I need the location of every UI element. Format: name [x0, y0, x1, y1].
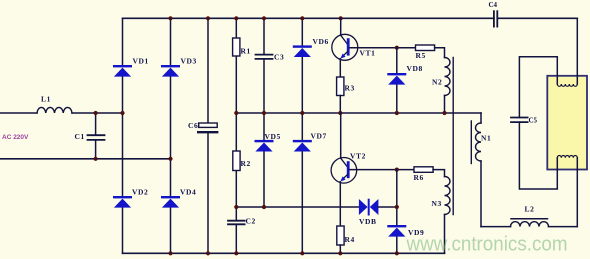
- node top rail VT1: [339, 16, 343, 20]
- svg-text:VD8: VD8: [407, 64, 423, 73]
- node bottom rail C2: [234, 251, 238, 255]
- svg-text:VD2: VD2: [132, 188, 148, 197]
- diode VD8: [387, 73, 406, 85]
- wire L1 to bridge: [72, 112, 123, 114]
- diac VDB: [359, 199, 379, 216]
- wire VT1 collector: [340, 18, 342, 35]
- svg-text:VT2: VT2: [350, 152, 366, 161]
- wire VD8 column: [396, 48, 398, 113]
- node trigger VD5: [262, 205, 266, 209]
- resistor R6: [414, 167, 433, 173]
- diode VD7: [293, 140, 312, 152]
- wire VD6 VD7 column: [301, 18, 303, 253]
- resistor R2: [233, 151, 240, 171]
- svg-text:R5: R5: [416, 51, 426, 60]
- node mid rail VD8: [395, 111, 399, 115]
- node top rail VD6: [300, 16, 304, 20]
- top rail: [123, 17, 494, 19]
- wire C5 bottom to lamp bottom left: [519, 122, 557, 189]
- capacitor C6: [199, 123, 218, 127]
- transformer core left: [452, 58, 454, 215]
- inductor L1: [37, 107, 72, 113]
- wire VDB to node: [378, 206, 396, 208]
- capacitor C1: [88, 113, 105, 159]
- svg-text:R2: R2: [241, 159, 251, 168]
- svg-text:VD3: VD3: [181, 57, 197, 66]
- wire C6 column: [207, 18, 209, 253]
- winding N3: [445, 177, 451, 215]
- svg-text:C5: C5: [529, 117, 538, 125]
- svg-text:VD4: VD4: [180, 188, 196, 197]
- capacitor C3: [256, 55, 273, 59]
- wire R4 to bottom rail: [339, 245, 341, 253]
- node bridge right: [168, 157, 172, 161]
- node bottom rail VD4: [168, 251, 172, 255]
- node trigger VD9: [395, 205, 399, 209]
- svg-text:VDB: VDB: [359, 217, 377, 226]
- svg-text:C1: C1: [75, 132, 85, 141]
- wire VD1 column: [122, 18, 124, 253]
- wire R3 to mid rail: [339, 96, 341, 114]
- svg-text:VD1: VD1: [133, 57, 149, 66]
- svg-text:C6: C6: [188, 121, 198, 130]
- wire lamp top left to C5: [519, 57, 557, 118]
- resistor R5: [416, 45, 435, 51]
- bottom rail: [123, 252, 445, 254]
- winding N2: [445, 58, 451, 96]
- capacitor C2: [228, 221, 245, 225]
- node mid rail N2: [442, 111, 446, 115]
- diode VD9: [387, 225, 406, 237]
- svg-text:R3: R3: [345, 84, 355, 93]
- wire VD3 column: [170, 18, 172, 253]
- node C1 bottom: [94, 157, 98, 161]
- node base VDB VD9: [395, 168, 399, 172]
- wire N3 to bottom rail: [444, 215, 446, 254]
- transistor VT1: [332, 34, 358, 60]
- lamp tube: [547, 76, 587, 170]
- wire R6 to N3: [433, 170, 444, 177]
- svg-text:C3: C3: [274, 53, 284, 62]
- wire VT1 base: [350, 47, 416, 49]
- transistor VT2: [331, 158, 357, 184]
- wire VT2 emitter to R4: [339, 182, 341, 226]
- wire lamp top right to C4 rail: [576, 18, 578, 84]
- node bottom rail R4: [338, 251, 342, 255]
- node C1 top: [94, 111, 98, 115]
- diode VD6: [293, 45, 312, 57]
- svg-text:R1: R1: [241, 47, 251, 56]
- node top rail C6: [206, 16, 210, 20]
- node top rail R1: [234, 16, 238, 20]
- wire AC line top: [0, 112, 37, 114]
- wire VD9 column: [396, 170, 398, 254]
- diode VD3: [161, 65, 180, 77]
- node base VD8: [395, 46, 399, 50]
- lamp filament top: [557, 84, 577, 86]
- svg-text:C2: C2: [246, 217, 256, 226]
- svg-text:VD7: VD7: [311, 132, 327, 141]
- inductor L2: [511, 219, 549, 227]
- node bridge left: [120, 111, 124, 115]
- capacitor C4: [494, 11, 497, 26]
- node bottom rail VD7: [300, 251, 304, 255]
- wire lamp bottom right to L2: [576, 158, 578, 227]
- resistor R3: [337, 77, 344, 96]
- diode VD1: [113, 65, 132, 77]
- wire N2 to mid rail: [444, 96, 446, 114]
- node bottom rail VD9: [395, 251, 399, 255]
- node mid rail R1R2: [234, 111, 238, 115]
- svg-text:VT1: VT1: [360, 49, 376, 58]
- winding N1: [476, 113, 481, 227]
- middle rail (half-bridge node): [236, 112, 481, 114]
- svg-text:AC 220V: AC 220V: [2, 134, 29, 141]
- resistor R4: [337, 226, 344, 245]
- svg-text:VD5: VD5: [265, 132, 281, 141]
- transformer core right: [470, 121, 472, 164]
- wire C3 VD5 column: [263, 18, 265, 207]
- svg-text:N2: N2: [432, 78, 442, 87]
- wire R5 to N2: [435, 48, 445, 58]
- node mid rail VD7: [300, 111, 304, 115]
- capacitor C5: [511, 118, 528, 123]
- node top rail C3: [262, 16, 266, 20]
- node mid rail VD5: [262, 111, 266, 115]
- svg-text:L2: L2: [525, 205, 535, 214]
- node mid rail R3: [338, 111, 342, 115]
- lamp filament bottom: [557, 156, 577, 158]
- svg-text:VD6: VD6: [313, 37, 329, 46]
- resistor R1: [233, 38, 240, 56]
- trigger wire C2 to VDB: [236, 206, 359, 208]
- wire L2 to lamp: [549, 226, 578, 228]
- node bottom rail C6: [206, 251, 210, 255]
- svg-text:N3: N3: [432, 199, 442, 208]
- diode VD2: [113, 196, 132, 208]
- wire VT1 emitter to R3: [339, 59, 341, 77]
- node top rail VD3: [168, 16, 172, 20]
- svg-text:www.cntronics.com: www.cntronics.com: [406, 233, 568, 256]
- top rail right of C4: [497, 17, 577, 19]
- svg-text:R4: R4: [345, 235, 355, 244]
- svg-text:C4: C4: [489, 1, 498, 9]
- svg-text:L1: L1: [41, 95, 51, 104]
- wire N1 to L2: [481, 226, 511, 228]
- node R2 C2 trigger: [234, 205, 238, 209]
- svg-text:R6: R6: [414, 173, 424, 182]
- svg-text:N1: N1: [481, 134, 491, 143]
- wire VT2 collector: [340, 113, 342, 158]
- diode VD4: [161, 196, 180, 208]
- wire R1 R2 C2 column: [235, 18, 237, 253]
- wire VT2 base: [350, 169, 415, 171]
- wire AC line bottom: [0, 158, 171, 160]
- diode VD5: [255, 140, 274, 152]
